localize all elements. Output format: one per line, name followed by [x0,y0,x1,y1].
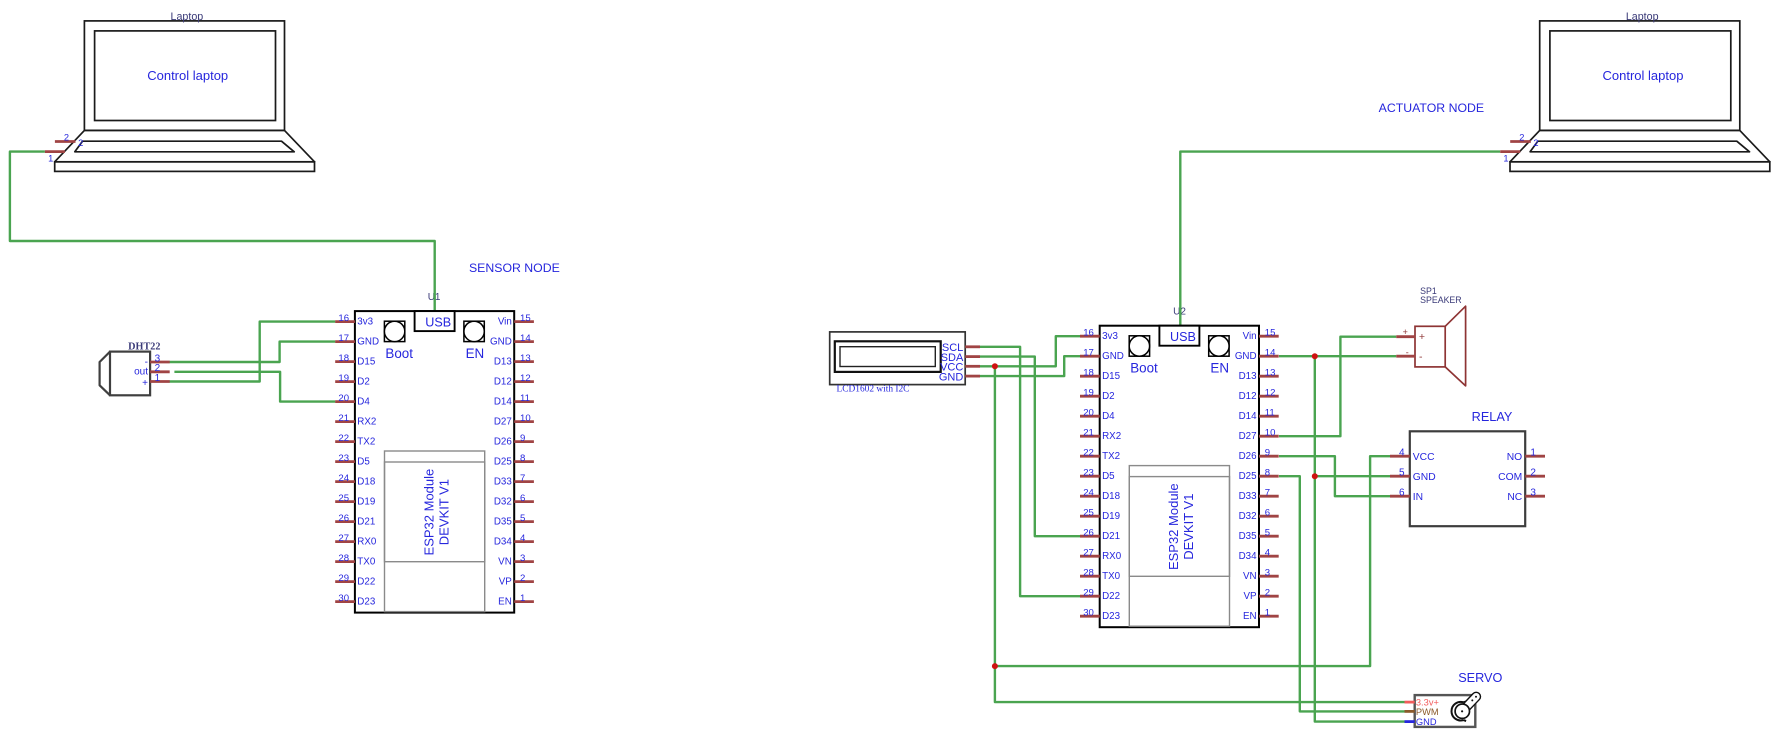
ESP32 U1 pin 8 D25 [494,453,534,468]
svg-text:2: 2 [78,138,83,148]
relay pin 5 GND [1390,468,1436,483]
svg-text:20: 20 [1083,408,1094,419]
svg-text:3: 3 [520,553,525,564]
svg-text:3v3: 3v3 [357,317,373,328]
svg-text:10: 10 [1265,428,1276,439]
laptop 2 pin 1 [1500,150,1520,153]
speaker pin + [1396,327,1425,343]
svg-text:GND: GND [939,371,964,383]
svg-text:17: 17 [1083,348,1094,359]
svg-text:23: 23 [338,453,349,464]
ESP32 U1 pin 15 Vin [498,313,534,328]
ESP32 devkit U1 body [355,311,514,612]
svg-text:6: 6 [1265,508,1270,519]
svg-text:RX0: RX0 [357,537,377,548]
DHT22 pin 1 + [142,373,170,389]
ESP32 U1 pin 27 RX0 [335,533,377,548]
ESP32 U1 PCB outline [385,451,485,612]
svg-text:D21: D21 [357,517,375,528]
ESP32 U1 pin 6 D32 [494,493,534,508]
svg-text:1: 1 [48,153,53,163]
svg-text:D13: D13 [1239,371,1258,382]
ESP32 U2 pin 17 GND [1080,348,1124,363]
svg-text:D26: D26 [1239,451,1258,462]
ESP32 U1 pin 16 3v3 [335,313,373,328]
svg-text:4: 4 [1399,448,1405,459]
svg-text:19: 19 [1083,388,1094,399]
ESP32 U1 Boot button [384,321,413,361]
svg-text:NO: NO [1507,452,1522,463]
relay pin 1 NO [1507,448,1545,463]
svg-text:EN: EN [498,597,512,608]
svg-text:13: 13 [1265,368,1276,379]
svg-text:EN: EN [1210,361,1229,376]
svg-text:TX0: TX0 [357,557,376,568]
ESP32 U2 pin 19 D2 [1080,388,1115,403]
svg-text:EN: EN [1243,611,1257,622]
servo pin GND [1405,717,1437,727]
ESP32 U2 pin 12 D12 [1239,388,1279,403]
svg-text:TX0: TX0 [1102,571,1121,582]
LCD1602 module body [830,332,966,385]
ESP32 U2 pin 5 D35 [1239,528,1279,543]
ESP32 U2 USB connector [1159,326,1199,346]
wire: GND net vertical to servo GND [1315,356,1405,721]
svg-text:24: 24 [1083,488,1094,499]
ESP32 U1 pin 13 D13 [494,353,534,368]
svg-text:D2: D2 [357,377,370,388]
servo pin 3.3v+ [1405,698,1439,708]
svg-text:4: 4 [1265,548,1271,559]
ESP32 U1 pin 5 D35 [494,513,534,528]
svg-text:ACTUATOR NODE: ACTUATOR NODE [1379,101,1484,115]
svg-text:19: 19 [338,373,349,384]
junction LCD VCC [992,363,998,369]
svg-text:D14: D14 [1239,411,1258,422]
svg-text:15: 15 [520,313,531,324]
LCD pin SCL [942,342,980,354]
svg-text:D22: D22 [1102,591,1120,602]
svg-text:D27: D27 [494,417,512,428]
svg-text:D4: D4 [357,397,370,408]
svg-text:D19: D19 [1102,511,1120,522]
sensor DHT22 body [100,352,151,396]
speaker SP1 body [1415,306,1466,386]
relay pin 6 IN [1390,488,1423,503]
wire: U2 D26 to relay IN [1279,456,1390,496]
svg-text:RX0: RX0 [1102,551,1122,562]
ESP32 U2 pin 10 D27 [1239,428,1279,443]
junction GND net lower [1312,473,1318,479]
wire: DHT22 pin1 + to U1 3v3 [170,322,336,382]
svg-text:Boot: Boot [1130,361,1158,376]
svg-text:3v3: 3v3 [1102,331,1118,342]
svg-text:VCC: VCC [1413,452,1435,463]
ESP32 U1 pin 2 VP [499,573,534,588]
svg-text:21: 21 [338,413,349,424]
ESP32 U1 pin 3 VN [498,553,534,568]
svg-text:7: 7 [520,473,525,484]
svg-text:SENSOR NODE: SENSOR NODE [469,261,560,275]
svg-text:2: 2 [1530,468,1536,479]
wire: GND net U2 pin14 to speaker - [1279,355,1396,357]
svg-text:D33: D33 [494,477,513,488]
svg-text:Laptop: Laptop [171,11,204,23]
wire: LCD GND to U2 GND pin17 [980,356,1080,376]
svg-text:12: 12 [1265,388,1276,399]
svg-text:4: 4 [520,533,526,544]
ESP32 U1 label "ESP32 Module DEVKIT V1" [421,469,451,556]
svg-text:D19: D19 [357,497,375,508]
svg-text:29: 29 [338,573,349,584]
svg-text:D15: D15 [1102,371,1121,382]
svg-text:13: 13 [520,353,531,364]
speaker pin - [1396,347,1423,363]
svg-text:2: 2 [64,133,69,143]
ESP32 U1 pin 7 D33 [494,473,534,488]
svg-text:NC: NC [1507,492,1522,503]
svg-text:EN: EN [466,346,485,361]
ESP32 U2 pin 13 D13 [1239,368,1279,383]
svg-text:PWM: PWM [1416,707,1439,717]
LCD pin SDA [941,352,980,364]
ESP32 U2 pin 25 D19 [1080,508,1120,523]
svg-text:VP: VP [1244,591,1258,602]
wire: DHT22 pin3 - to U1 GND [170,342,336,362]
ESP32 U1 pin 4 D34 [494,533,534,548]
wire: U2 D25 to servo PWM [1279,476,1405,711]
ESP32 U2 pin 18 D15 [1080,368,1121,383]
ESP32 U2 pin 14 GND [1235,348,1279,363]
junction VCC net [992,663,998,669]
svg-text:12: 12 [520,373,531,384]
svg-text:5: 5 [1399,468,1405,479]
svg-text:D12: D12 [1239,391,1257,402]
svg-text:+: + [1403,327,1408,337]
svg-text:21: 21 [1083,428,1094,439]
svg-text:D5: D5 [1102,471,1115,482]
svg-text:22: 22 [1083,448,1094,459]
svg-text:D32: D32 [1239,511,1257,522]
svg-text:D22: D22 [357,577,375,588]
wire: LCD SDA to U2 D21 [980,357,1080,537]
wire: LCD VCC to U2 3v3 [980,336,1080,366]
svg-text:USB: USB [1170,330,1196,344]
svg-text:25: 25 [338,493,349,504]
svg-text:2: 2 [1519,133,1524,143]
svg-text:D18: D18 [357,477,376,488]
svg-text:6: 6 [520,493,525,504]
ESP32 U1 pin 30 D23 [335,593,376,608]
DHT22 pin 3 - [145,353,170,367]
svg-text:3: 3 [1530,488,1536,499]
svg-text:GND: GND [357,337,379,348]
svg-text:2: 2 [520,573,525,584]
servo horn icon [1452,696,1477,721]
ESP32 U2 pin 11 D14 [1239,408,1279,423]
svg-text:D15: D15 [357,357,376,368]
ESP32 U2 pin 20 D4 [1080,408,1115,423]
ESP32 U1 pin 20 D4 [335,393,370,408]
ESP32 U1 USB connector [415,311,455,331]
svg-text:-: - [1406,347,1409,357]
svg-text:Vin: Vin [498,317,512,328]
svg-text:16: 16 [1083,328,1094,339]
ESP32 U1 pin 1 EN [498,593,534,608]
ESP32 U2 pin 3 VN [1243,568,1279,583]
svg-text:26: 26 [1083,528,1094,539]
svg-text:VN: VN [1243,571,1257,582]
svg-text:Boot: Boot [385,346,413,361]
svg-text:27: 27 [1083,548,1094,559]
svg-text:9: 9 [1265,448,1270,459]
wire: LCD SCL to U2 D22 [980,347,1080,596]
ESP32 U2 pin 21 RX2 [1080,428,1121,443]
svg-text:D14: D14 [494,397,513,408]
svg-text:Control laptop: Control laptop [1603,68,1684,83]
svg-text:6: 6 [1399,488,1405,499]
svg-text:25: 25 [1083,508,1094,519]
svg-text:GND: GND [1413,472,1436,483]
servo body [1415,695,1476,727]
ESP32 U1 pin 12 D12 [494,373,534,388]
svg-text:D25: D25 [1239,471,1258,482]
svg-text:ESP32 Module: ESP32 Module [421,469,436,556]
svg-text:D21: D21 [1102,531,1120,542]
speaker SP1 reference labels [1420,286,1462,305]
svg-text:GND: GND [1102,351,1124,362]
wire: DHT22 pin2 out to U1 D4 [174,372,335,402]
ESP32 U2 pin 29 D22 [1080,588,1120,603]
laptop 2 pin 2 [1510,140,1531,143]
svg-text:5: 5 [1265,528,1270,539]
ESP32 U1 pin 26 D21 [335,513,375,528]
ESP32 U1 pin 22 TX2 [335,433,375,448]
svg-text:DHT22: DHT22 [128,341,160,352]
svg-text:D34: D34 [494,537,513,548]
servo pin PWM [1405,707,1439,717]
ESP32 U2 PCB outline [1129,466,1229,627]
svg-text:D18: D18 [1102,491,1121,502]
svg-text:D34: D34 [1239,551,1258,562]
svg-text:Control laptop: Control laptop [147,68,228,83]
svg-text:3: 3 [1265,568,1270,579]
ESP32 U1 pin 23 D5 [335,453,370,468]
svg-text:D12: D12 [494,377,512,388]
svg-text:GND: GND [490,337,512,348]
svg-text:Vin: Vin [1243,331,1257,342]
svg-text:DEVKIT V1: DEVKIT V1 [1181,494,1196,560]
ESP32 U2 label "ESP32 Module DEVKIT V1" [1166,483,1196,570]
ESP32 U2 pin 6 D32 [1239,508,1279,523]
svg-text:10: 10 [520,413,531,424]
svg-text:22: 22 [338,433,349,444]
ESP32 U2 EN button [1209,336,1229,376]
svg-text:SERVO: SERVO [1458,671,1502,685]
ESP32 U1 pin 18 D15 [335,353,376,368]
svg-text:TX2: TX2 [1102,451,1120,462]
svg-text:D25: D25 [494,457,513,468]
wire: VCC net branch to relay VCC [995,456,1390,666]
svg-text:D13: D13 [494,357,513,368]
svg-text:1: 1 [1530,448,1536,459]
ESP32 U1 pin 10 D27 [494,413,534,428]
wire: VCC net vertical (LCD VCC to servo 3.3v+) [995,366,1405,702]
svg-text:out: out [134,367,148,378]
svg-text:D27: D27 [1239,431,1257,442]
ESP32 U1 pin 25 D19 [335,493,375,508]
svg-text:24: 24 [338,473,349,484]
ESP32 U1 pin 19 D2 [335,373,370,388]
ESP32 U1 pin 21 RX2 [335,413,376,428]
ESP32 U2 pin 15 Vin [1243,328,1279,343]
svg-text:17: 17 [338,333,349,344]
svg-text:18: 18 [1083,368,1094,379]
svg-text:27: 27 [338,533,349,544]
LCD pin VCC [940,362,980,374]
svg-text:D4: D4 [1102,411,1115,422]
laptop 1 pin 2 [55,140,76,143]
ESP32 U1 pin 9 D26 [494,433,534,448]
svg-text:2: 2 [1533,138,1538,148]
svg-text:7: 7 [1265,488,1270,499]
DHT22 pin 2 out [134,363,170,377]
ESP32 U2 pin 2 VP [1244,588,1279,603]
svg-text:SPEAKER: SPEAKER [1420,295,1462,305]
svg-text:30: 30 [338,593,349,604]
svg-text:LCD1602 with I2C: LCD1602 with I2C [837,385,910,395]
ESP32 devkit U2 body [1100,326,1259,628]
wire: U2 D27 to speaker + [1279,337,1396,437]
wire: laptop1 pin1 to U1 USB [10,152,435,313]
relay pin 4 VCC [1390,448,1435,463]
svg-text:1: 1 [1265,608,1270,619]
svg-text:ESP32 Module: ESP32 Module [1166,483,1181,570]
relay pin 3 NC [1507,488,1545,503]
svg-text:D35: D35 [494,517,513,528]
ESP32 U1 pin 11 D14 [494,393,534,408]
svg-text:RX2: RX2 [1102,431,1121,442]
svg-text:VP: VP [499,577,513,588]
ESP32 U2 pin 7 D33 [1239,488,1279,503]
ESP32 U2 pin 26 D21 [1080,528,1120,543]
ESP32 U2 pin 8 D25 [1239,468,1279,483]
svg-text:8: 8 [1265,468,1270,479]
laptop 2 body [1510,21,1770,172]
svg-text:9: 9 [520,433,525,444]
svg-text:GND: GND [1235,351,1257,362]
svg-text:18: 18 [338,353,349,364]
ESP32 U2 pin 22 TX2 [1080,448,1120,463]
svg-text:GND: GND [1416,717,1437,727]
wire: laptop2 pin1 to U2 USB [1180,152,1500,328]
svg-text:14: 14 [1265,348,1276,359]
svg-text:D33: D33 [1239,491,1258,502]
ESP32 U2 Boot button [1129,336,1158,376]
svg-text:+: + [1419,331,1425,343]
ESP32 U1 EN button [464,321,484,361]
svg-text:DEVKIT V1: DEVKIT V1 [436,479,451,545]
svg-text:2: 2 [1265,588,1270,599]
ESP32 U1 pin 17 GND [335,333,379,348]
svg-text:D23: D23 [1102,611,1121,622]
ESP32 U2 pin 28 TX0 [1080,568,1121,583]
svg-text:IN: IN [1413,492,1423,503]
svg-text:11: 11 [1265,408,1275,419]
svg-text:23: 23 [1083,468,1094,479]
svg-text:D5: D5 [357,457,370,468]
svg-text:20: 20 [338,393,349,404]
svg-text:D26: D26 [494,437,513,448]
svg-text:VN: VN [498,557,512,568]
svg-text:29: 29 [1083,588,1094,599]
ESP32 U2 pin 24 D18 [1080,488,1121,503]
svg-text:1: 1 [1503,153,1508,163]
relay pin 2 COM [1498,468,1545,483]
svg-text:TX2: TX2 [357,437,375,448]
svg-text:RX2: RX2 [357,417,376,428]
svg-text:14: 14 [520,333,531,344]
svg-text:USB: USB [425,316,451,330]
junction GND net upper [1312,353,1318,359]
svg-text:28: 28 [1083,568,1094,579]
ESP32 U2 pin 16 3v3 [1080,328,1118,343]
svg-text:1: 1 [155,373,161,384]
ESP32 U2 pin 1 EN [1243,608,1279,623]
svg-text:26: 26 [338,513,349,524]
laptop 1 pin 1 [45,150,65,153]
svg-text:D23: D23 [357,597,376,608]
ESP32 U2 pin 27 RX0 [1080,548,1122,563]
svg-text:+: + [142,378,148,389]
ESP32 U1 pin 29 D22 [335,573,375,588]
svg-text:28: 28 [338,553,349,564]
ESP32 U1 pin 24 D18 [335,473,376,488]
ESP32 U1 pin 14 GND [490,333,534,348]
svg-text:D2: D2 [1102,391,1115,402]
svg-text:Laptop: Laptop [1626,11,1659,23]
laptop 1 body [55,21,315,172]
svg-text:D32: D32 [494,497,512,508]
svg-text:5: 5 [520,513,525,524]
svg-text:15: 15 [1265,328,1276,339]
ESP32 U2 pin 23 D5 [1080,468,1115,483]
wire: GND net branch to relay GND [1315,475,1390,477]
svg-text:8: 8 [520,453,525,464]
ESP32 U2 pin 4 D34 [1239,548,1279,563]
ESP32 U2 pin 9 D26 [1239,448,1279,463]
relay body [1410,431,1525,526]
svg-text:-: - [1419,351,1423,363]
svg-text:11: 11 [520,393,530,404]
svg-text:16: 16 [338,313,349,324]
LCD pin GND [939,371,980,383]
ESP32 U2 pin 30 D23 [1080,608,1121,623]
svg-text:30: 30 [1083,608,1094,619]
ESP32 U1 pin 28 TX0 [335,553,376,568]
svg-text:1: 1 [520,593,525,604]
svg-text:COM: COM [1498,472,1522,483]
svg-text:RELAY: RELAY [1472,410,1513,424]
svg-text:D35: D35 [1239,531,1258,542]
